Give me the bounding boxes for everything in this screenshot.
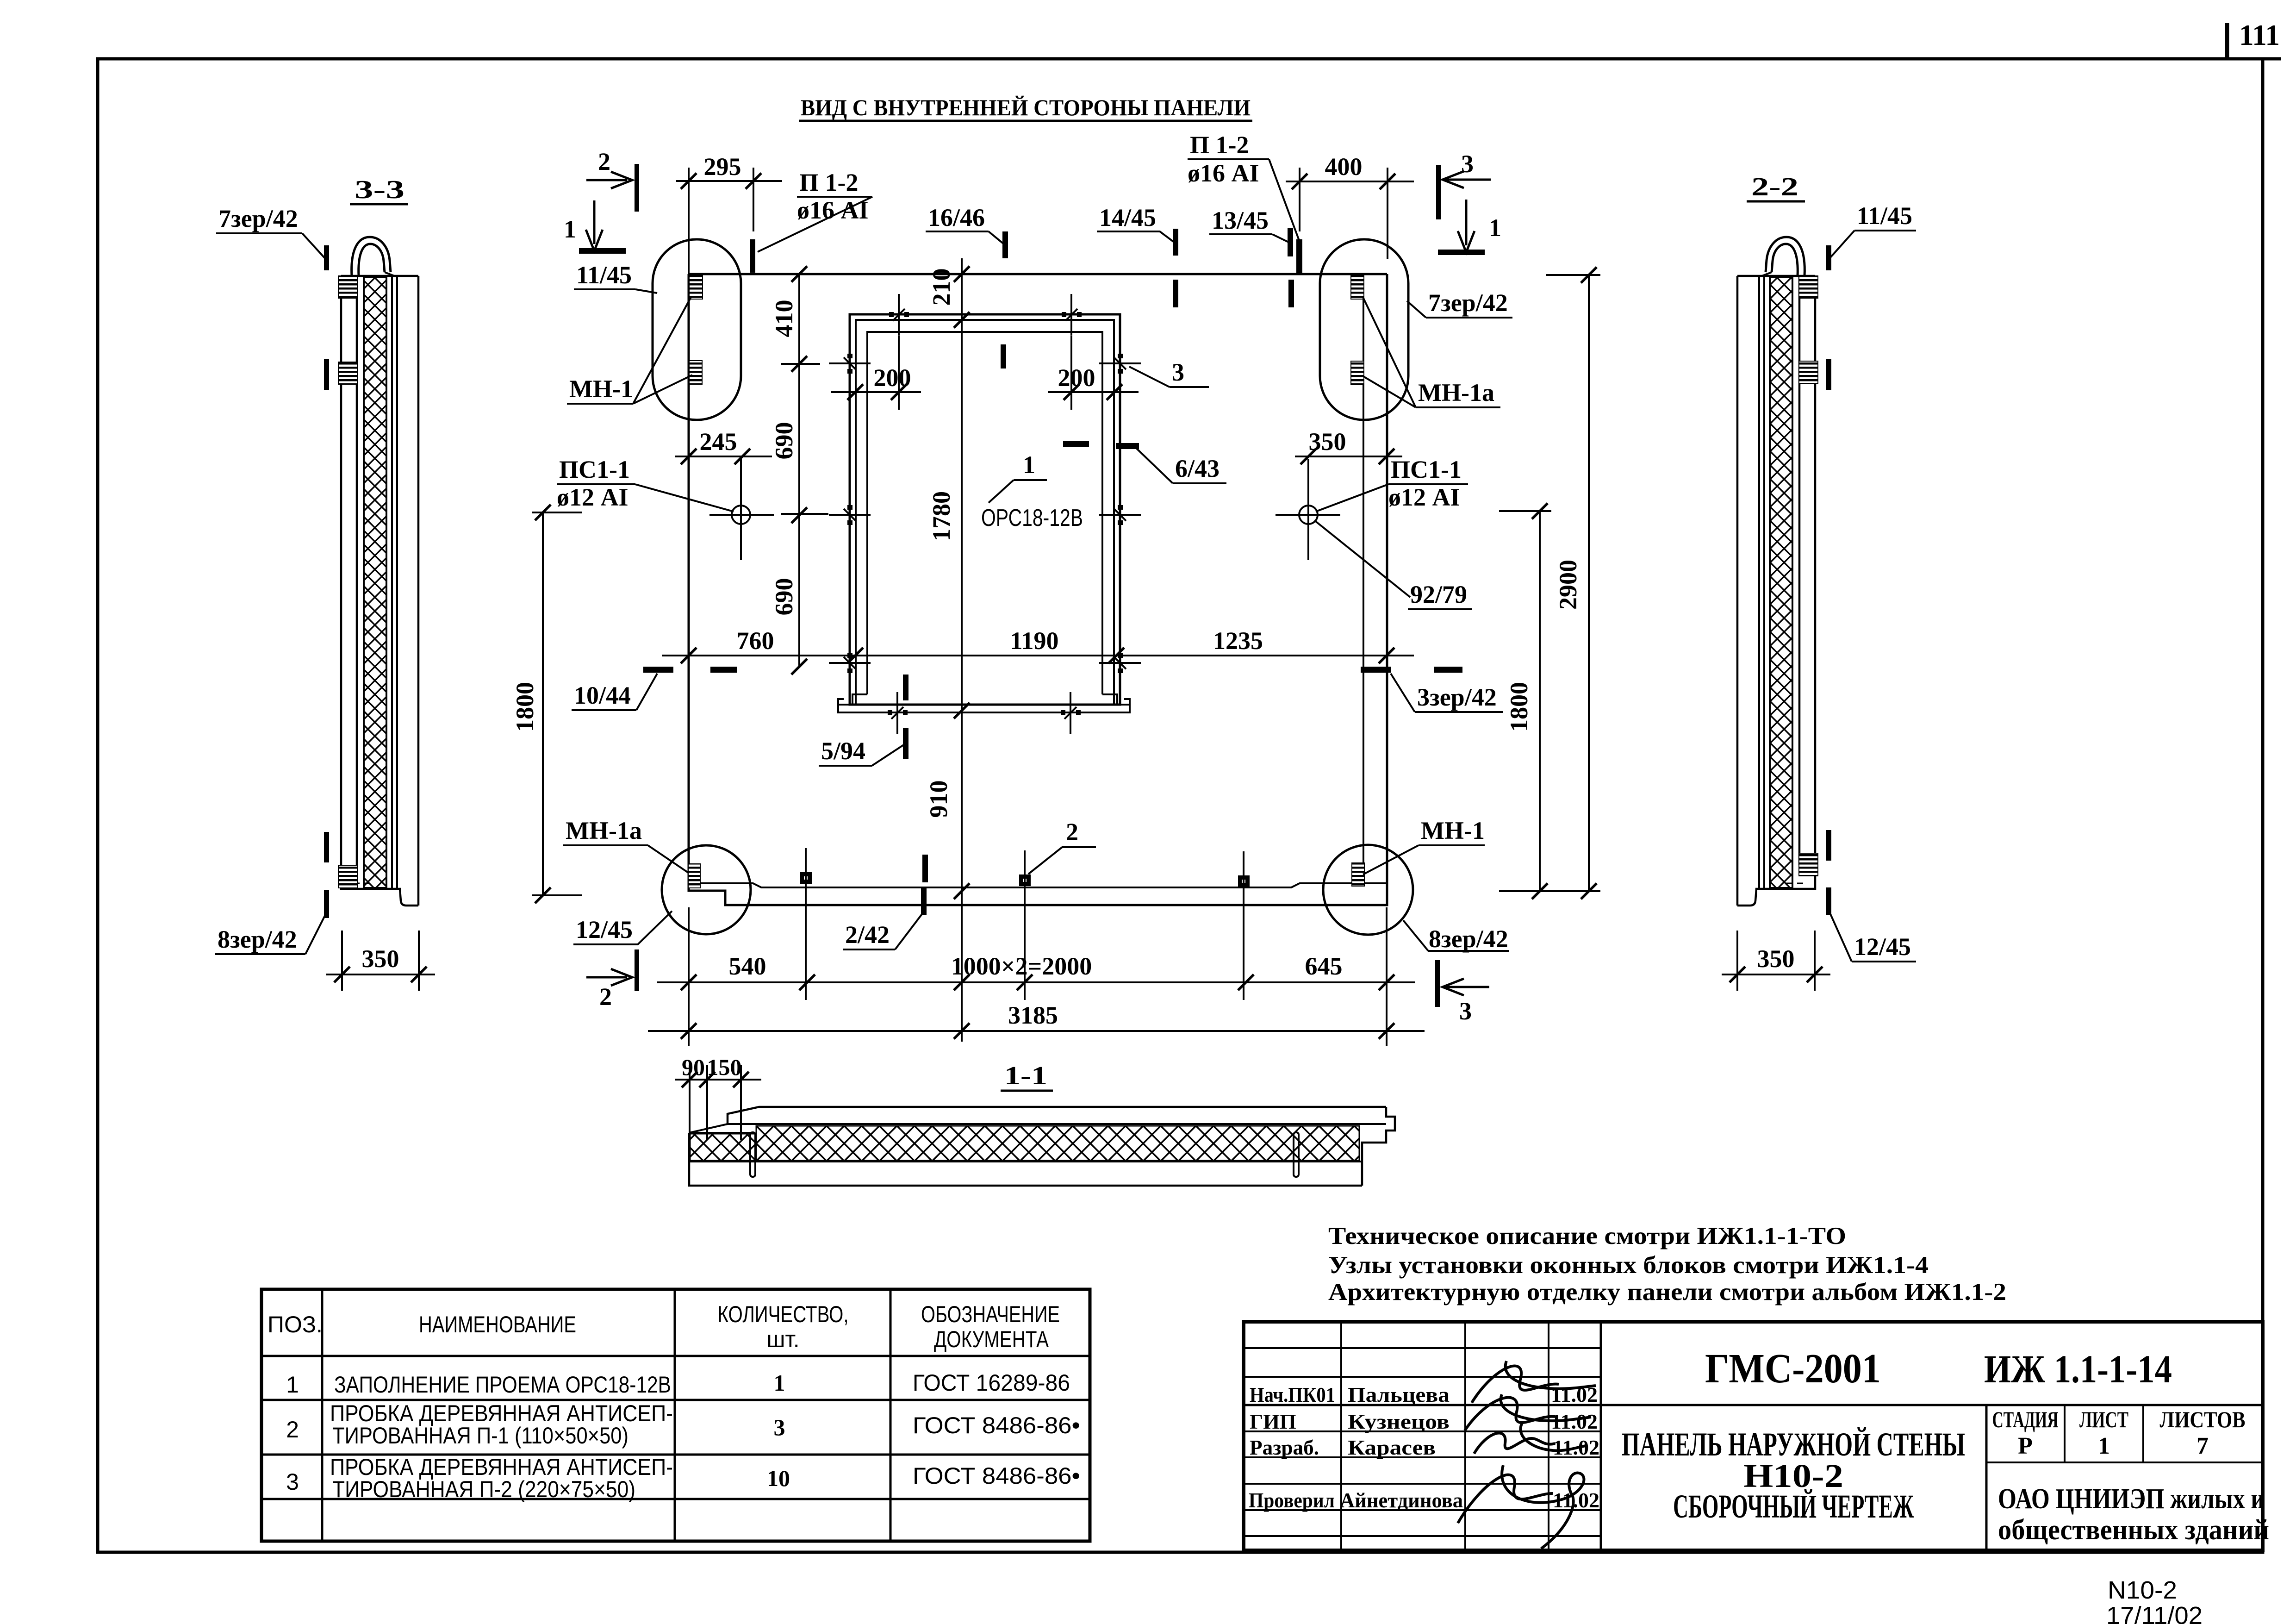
svg-text:СБОРОЧНЫЙ ЧЕРТЕЖ: СБОРОЧНЫЙ ЧЕРТЕЖ: [1673, 1488, 1914, 1525]
svg-text:210: 210: [927, 269, 955, 306]
svg-text:Пальцева: Пальцева: [1348, 1383, 1450, 1406]
svg-text:ПС1-1: ПС1-1: [1391, 456, 1462, 483]
svg-text:8зер/42: 8зер/42: [1429, 925, 1508, 953]
svg-text:3-3: 3-3: [355, 175, 404, 204]
svg-text:14/45: 14/45: [1099, 204, 1156, 231]
svg-text:Архитектурную отделку панели с: Архитектурную отделку панели смотри альб…: [1328, 1279, 2006, 1305]
svg-text:ø12 АI: ø12 АI: [557, 483, 628, 511]
svg-text:ОБОЗНАЧЕНИЕ: ОБОЗНАЧЕНИЕ: [921, 1301, 1060, 1327]
svg-text:2900: 2900: [1554, 560, 1582, 610]
svg-text:645: 645: [1305, 952, 1343, 980]
svg-text:3: 3: [286, 1469, 299, 1495]
svg-text:350: 350: [1757, 945, 1795, 973]
svg-text:МН-1а: МН-1а: [566, 817, 642, 844]
svg-text:ОРС18-12В: ОРС18-12В: [981, 505, 1083, 531]
svg-text:6/43: 6/43: [1175, 455, 1220, 482]
svg-text:13/45: 13/45: [1212, 206, 1269, 234]
svg-text:7зер/42: 7зер/42: [1428, 289, 1508, 317]
svg-text:12/45: 12/45: [1854, 933, 1911, 961]
svg-text:МН-1а: МН-1а: [1418, 379, 1494, 406]
svg-text:Техническое описание смотри ИЖ: Техническое описание смотри ИЖ1.1-1-ТО: [1328, 1223, 1846, 1249]
svg-text:общественных зданий: общественных зданий: [1998, 1514, 2269, 1546]
svg-text:ПС1-1: ПС1-1: [559, 456, 630, 483]
svg-text:Р: Р: [2018, 1433, 2033, 1459]
svg-text:Айнетдинова: Айнетдинова: [1340, 1488, 1463, 1512]
svg-text:ДОКУМЕНТА: ДОКУМЕНТА: [934, 1326, 1049, 1352]
svg-text:Карасев: Карасев: [1348, 1436, 1436, 1459]
svg-text:7: 7: [2196, 1433, 2209, 1459]
svg-text:3: 3: [774, 1414, 785, 1440]
svg-text:П 1-2: П 1-2: [1190, 131, 1249, 159]
svg-text:2: 2: [598, 148, 610, 175]
svg-text:1: 1: [2098, 1433, 2110, 1459]
svg-text:400: 400: [1325, 153, 1363, 181]
svg-text:Кузнецов: Кузнецов: [1348, 1410, 1450, 1433]
svg-text:8зер/42: 8зер/42: [218, 925, 297, 953]
svg-text:ВИД С ВНУТРЕННЕЙ СТОРОНЫ ПАНЕЛ: ВИД С ВНУТРЕННЕЙ СТОРОНЫ ПАНЕЛИ: [801, 94, 1251, 120]
svg-text:350: 350: [362, 945, 399, 973]
svg-text:ЗАПОЛНЕНИЕ ПРОЕМА ОРС18-12В: ЗАПОЛНЕНИЕ ПРОЕМА ОРС18-12В: [334, 1372, 671, 1398]
svg-text:ЛИСТ: ЛИСТ: [2079, 1406, 2128, 1432]
svg-text:П 1-2: П 1-2: [799, 169, 859, 196]
svg-text:2: 2: [286, 1417, 299, 1443]
svg-text:1: 1: [774, 1370, 785, 1396]
svg-text:Разраб.: Разраб.: [1250, 1436, 1319, 1459]
svg-text:2: 2: [1066, 818, 1078, 846]
svg-text:ø16 АI: ø16 АI: [1188, 159, 1259, 187]
svg-text:2/42: 2/42: [845, 921, 890, 949]
svg-text:16/46: 16/46: [928, 204, 985, 231]
svg-text:ГМС-2001: ГМС-2001: [1705, 1346, 1881, 1392]
svg-text:3: 3: [1459, 997, 1472, 1025]
svg-text:760: 760: [737, 627, 774, 655]
svg-text:1: 1: [564, 215, 576, 243]
svg-text:ТИРОВАННАЯ П-2 (220×75×50): ТИРОВАННАЯ П-2 (220×75×50): [332, 1476, 635, 1502]
svg-text:НАИМЕНОВАНИЕ: НАИМЕНОВАНИЕ: [419, 1312, 576, 1337]
svg-text:200: 200: [1058, 364, 1095, 392]
svg-text:1000×2=2000: 1000×2=2000: [951, 952, 1092, 980]
svg-text:245: 245: [700, 428, 737, 456]
svg-text:ø16 АI: ø16 АI: [797, 196, 869, 224]
svg-text:1800: 1800: [1505, 682, 1533, 732]
svg-text:10: 10: [767, 1465, 790, 1491]
svg-text:1235: 1235: [1213, 627, 1263, 655]
svg-text:1780: 1780: [927, 491, 955, 541]
svg-text:ТИРОВАННАЯ П-1 (110×50×50): ТИРОВАННАЯ П-1 (110×50×50): [332, 1423, 628, 1449]
svg-text:3: 3: [1172, 358, 1184, 386]
svg-text:5/94: 5/94: [821, 737, 865, 765]
svg-text:ПОЗ.: ПОЗ.: [268, 1312, 323, 1337]
svg-text:МН-1: МН-1: [1421, 817, 1485, 844]
svg-text:1-1: 1-1: [1004, 1062, 1047, 1090]
svg-text:СТАДИЯ: СТАДИЯ: [1992, 1406, 2059, 1432]
svg-text:111: 111: [2239, 19, 2280, 51]
svg-text:ЛИСТОВ: ЛИСТОВ: [2160, 1406, 2246, 1432]
svg-text:ГОСТ 16289-86: ГОСТ 16289-86: [913, 1370, 1070, 1396]
svg-text:1: 1: [1023, 451, 1035, 479]
svg-text:10/44: 10/44: [574, 681, 631, 709]
svg-text:КОЛИЧЕСТВО,: КОЛИЧЕСТВО,: [718, 1301, 849, 1327]
svg-text:11/45: 11/45: [1857, 202, 1912, 230]
svg-text:17/11/02: 17/11/02: [2106, 1602, 2203, 1624]
svg-text:ОАО ЦНИИЭП жилых и: ОАО ЦНИИЭП жилых и: [1998, 1483, 2265, 1515]
svg-text:ГОСТ 8486-86•: ГОСТ 8486-86•: [913, 1463, 1080, 1489]
svg-text:Проверил: Проверил: [1249, 1488, 1335, 1512]
svg-text:295: 295: [704, 153, 741, 181]
svg-text:N10-2: N10-2: [2108, 1576, 2177, 1604]
svg-text:МН-1: МН-1: [569, 375, 633, 403]
svg-text:ГОСТ 8486-86•: ГОСТ 8486-86•: [913, 1412, 1080, 1438]
svg-text:2-2: 2-2: [1751, 173, 1798, 201]
svg-text:690: 690: [770, 422, 798, 460]
svg-text:1800: 1800: [511, 682, 539, 732]
svg-text:ø12 АI: ø12 АI: [1388, 483, 1460, 511]
svg-text:350: 350: [1309, 428, 1346, 456]
svg-text:910: 910: [925, 781, 952, 818]
svg-text:3зер/42: 3зер/42: [1417, 683, 1497, 711]
svg-text:ИЖ 1.1-1-14: ИЖ 1.1-1-14: [1984, 1347, 2172, 1391]
svg-text:12/45: 12/45: [576, 916, 633, 943]
svg-text:7зер/42: 7зер/42: [218, 205, 298, 232]
svg-text:200: 200: [874, 364, 911, 392]
svg-text:690: 690: [770, 578, 798, 616]
svg-text:1: 1: [1489, 214, 1501, 242]
svg-text:1: 1: [286, 1372, 299, 1398]
svg-text:2: 2: [599, 983, 612, 1011]
svg-text:1190: 1190: [1010, 627, 1058, 655]
svg-text:540: 540: [729, 952, 766, 980]
svg-text:шт.: шт.: [766, 1326, 799, 1352]
svg-text:410: 410: [770, 300, 798, 337]
svg-text:3185: 3185: [1008, 1001, 1058, 1029]
svg-text:11/45: 11/45: [576, 261, 632, 289]
svg-text:Нач.ПК01: Нач.ПК01: [1250, 1383, 1335, 1406]
svg-text:92/79: 92/79: [1410, 581, 1467, 608]
svg-text:Узлы установки оконных блоков: Узлы установки оконных блоков смотри ИЖ1…: [1328, 1252, 1929, 1279]
svg-text:ГИП: ГИП: [1250, 1410, 1296, 1433]
svg-text:3: 3: [1461, 150, 1474, 178]
